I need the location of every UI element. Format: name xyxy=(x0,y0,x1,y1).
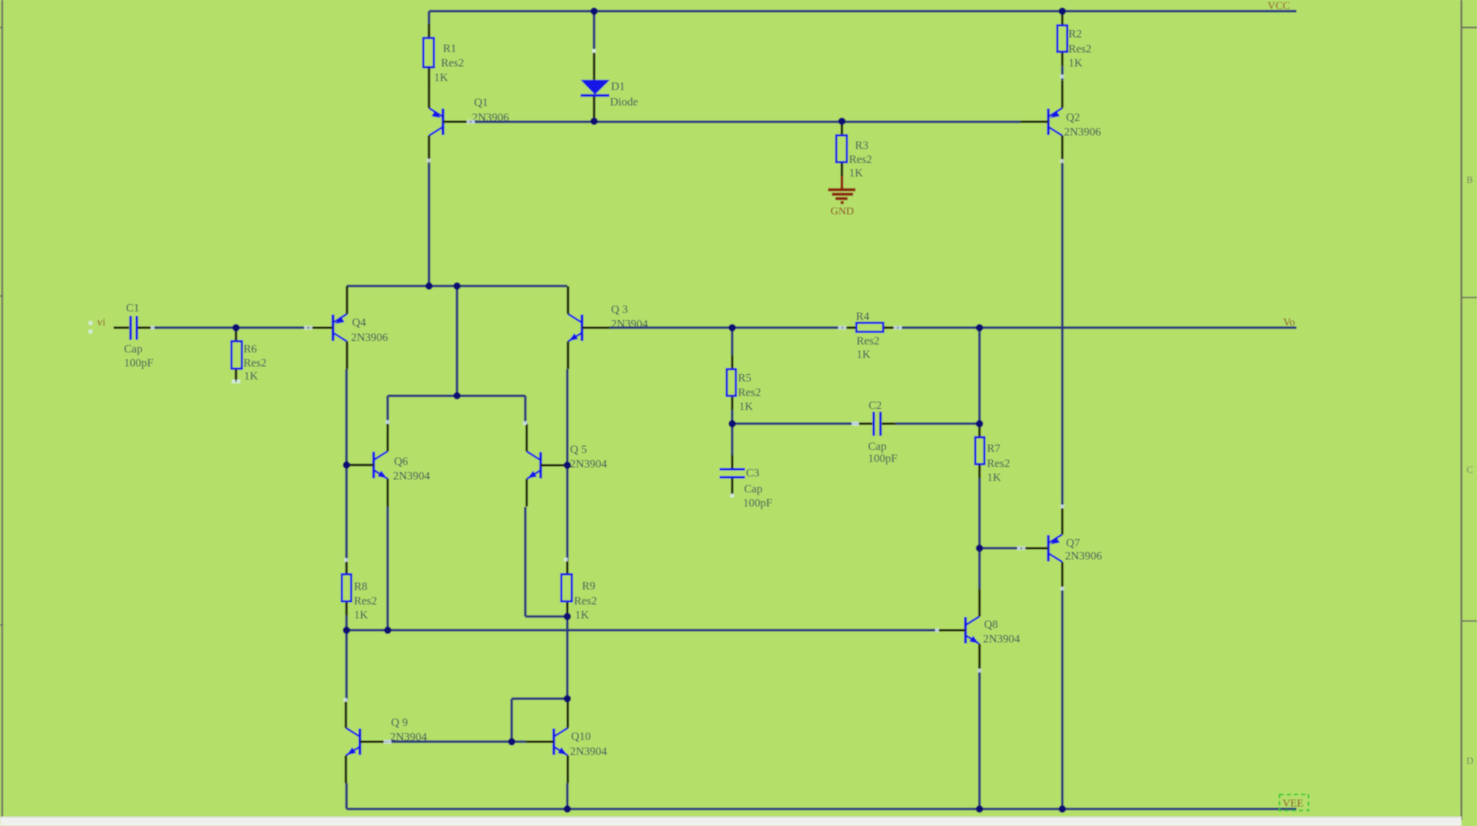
resistor R6 xyxy=(232,341,242,368)
resistor R4 xyxy=(856,323,883,332)
wire R2 to Q2 xyxy=(1061,66,1064,80)
label R8 xyxy=(354,581,377,622)
transistor Q7 xyxy=(1021,507,1063,590)
wire base bus y630 xyxy=(347,629,938,632)
svg-text:Q7: Q7 xyxy=(1066,538,1080,550)
junction Q5E-R9 xyxy=(564,613,571,620)
wire Q8 emitter down xyxy=(978,672,981,809)
svg-text:Q 3: Q 3 xyxy=(611,304,628,316)
svg-text:R9: R9 xyxy=(582,581,596,593)
svg-text:1K: 1K xyxy=(739,401,754,413)
wire C3 top xyxy=(731,424,734,455)
pin R7 top xyxy=(978,424,981,438)
wire R7 bottom down xyxy=(978,478,981,548)
svg-text:R6: R6 xyxy=(244,344,258,356)
label Q2 xyxy=(1064,112,1101,139)
svg-text:Q 9: Q 9 xyxy=(391,717,408,729)
junction R3-base line xyxy=(838,118,845,125)
transistor Q8 xyxy=(938,589,980,672)
wire Q5 collector up xyxy=(524,396,527,424)
svg-text:Res2: Res2 xyxy=(987,458,1010,470)
diode D1 xyxy=(581,80,610,96)
label Q6 xyxy=(393,456,430,483)
wire Q10 emitter down xyxy=(566,783,569,809)
svg-text:R1: R1 xyxy=(443,43,457,55)
pin R9 top xyxy=(566,560,569,574)
transistor Q5 xyxy=(527,424,569,507)
net label vi xyxy=(97,317,106,329)
wire Q4 collector down xyxy=(345,369,348,560)
pin C3 bottom xyxy=(731,479,734,495)
wire R9 bottom down xyxy=(566,617,569,699)
svg-text:Q8: Q8 xyxy=(984,619,998,631)
svg-text:VCC: VCC xyxy=(1268,0,1291,12)
svg-text:Res2: Res2 xyxy=(244,358,267,370)
pin C2 left xyxy=(859,422,872,425)
wire base line Q1-Q2 xyxy=(471,121,1021,124)
svg-text:1K: 1K xyxy=(849,168,864,180)
svg-text:R4: R4 xyxy=(856,311,870,323)
wire D1 top xyxy=(593,11,596,49)
resistor R8 xyxy=(342,574,351,601)
junction Q1 collector rail xyxy=(425,282,432,289)
junction R5-C2-C3 xyxy=(729,420,736,427)
pin C2 right xyxy=(882,422,895,425)
svg-text:vi: vi xyxy=(97,317,106,329)
svg-text:2N3906: 2N3906 xyxy=(1064,127,1101,139)
pin R7 bottom xyxy=(978,464,981,478)
svg-text:1K: 1K xyxy=(244,371,259,383)
svg-text:R5: R5 xyxy=(738,373,752,385)
power port VEE (selected) xyxy=(1280,795,1309,811)
svg-text:Res2: Res2 xyxy=(849,154,872,166)
wire Q9 base xyxy=(388,740,512,743)
wire C1 to Q4 xyxy=(153,326,305,329)
svg-text:1K: 1K xyxy=(857,349,872,361)
resistor R2 xyxy=(1057,25,1067,51)
resistor R3 xyxy=(836,135,847,162)
wire C2 right xyxy=(895,422,979,425)
pin D1 top xyxy=(593,52,596,80)
svg-text:R2: R2 xyxy=(1069,29,1083,41)
svg-text:1K: 1K xyxy=(987,472,1002,484)
net label Vo xyxy=(1283,317,1296,329)
transistor Q9 xyxy=(346,700,388,783)
junction Q5 base xyxy=(564,462,571,469)
wire VEE rail xyxy=(347,808,1297,811)
svg-text:2N3904: 2N3904 xyxy=(393,471,430,483)
svg-text:C3: C3 xyxy=(746,468,760,480)
pin R3 bottom xyxy=(841,162,844,176)
pin R5 top xyxy=(731,355,734,369)
svg-text:Cap: Cap xyxy=(744,484,763,496)
wire Q10 base xyxy=(512,740,527,743)
junction x457-y396 xyxy=(453,392,460,399)
selection grips xyxy=(89,49,1065,744)
wire Q9 collector up xyxy=(345,630,348,700)
pin R4 left xyxy=(842,326,856,329)
wire Q7 base xyxy=(980,547,1021,550)
wire R5 bottom xyxy=(731,410,734,424)
svg-text:Res2: Res2 xyxy=(574,596,597,608)
svg-text:Res2: Res2 xyxy=(354,596,377,608)
wire R5 top xyxy=(731,328,734,355)
wire Q9 emitter down xyxy=(345,783,348,809)
wire x457 down xyxy=(456,286,459,396)
label R2 xyxy=(1069,29,1092,70)
svg-text:Vo: Vo xyxy=(1283,317,1296,329)
junction VEE-Q8 xyxy=(976,805,983,812)
wire Q2 collector down xyxy=(1061,163,1064,506)
svg-text:Res2: Res2 xyxy=(441,58,464,70)
svg-text:Res2: Res2 xyxy=(1069,44,1092,56)
svg-text:R3: R3 xyxy=(855,140,869,152)
label R4 xyxy=(856,311,880,361)
junction VEE-Q7 xyxy=(1059,805,1066,812)
transistor Q10 xyxy=(526,700,568,783)
wire Q9Q10 base loop vertical xyxy=(510,699,513,742)
junction x457 rail xyxy=(453,282,460,289)
junction R7-Q7-Q8 xyxy=(976,545,983,552)
svg-text:D: D xyxy=(1467,757,1474,767)
svg-text:100pF: 100pF xyxy=(868,453,897,465)
pin R1 top xyxy=(428,24,431,38)
svg-text:R7: R7 xyxy=(987,443,1001,455)
svg-text:Q1: Q1 xyxy=(474,97,488,109)
label D1 xyxy=(610,81,638,109)
label Q3 xyxy=(611,304,648,331)
wire R5 to C2 xyxy=(732,422,859,425)
svg-text:2N3906: 2N3906 xyxy=(472,112,509,124)
wire VCC rail xyxy=(429,10,1297,13)
svg-text:2N3904: 2N3904 xyxy=(983,634,1020,646)
svg-text:100pF: 100pF xyxy=(743,498,772,510)
label Q9 xyxy=(390,717,427,744)
wire Q7 collector down xyxy=(1061,590,1064,809)
svg-text:D1: D1 xyxy=(611,81,625,93)
junction VEE-Q10 xyxy=(564,805,571,812)
pin R2 bottom xyxy=(1061,52,1064,66)
svg-text:2N3904: 2N3904 xyxy=(611,319,648,331)
svg-text:2N3906: 2N3906 xyxy=(1065,551,1102,563)
junction Q4C-Q6 base xyxy=(343,461,350,468)
pin R6 bottom xyxy=(235,368,238,382)
svg-text:C1: C1 xyxy=(126,303,140,315)
wire R8 bottom xyxy=(345,615,348,630)
svg-text:Q10: Q10 xyxy=(571,731,591,743)
svg-text:Res2: Res2 xyxy=(738,387,761,399)
svg-text:Diode: Diode xyxy=(610,97,638,109)
svg-text:2N3906: 2N3906 xyxy=(351,332,388,344)
junction D1-base line xyxy=(590,118,597,125)
transistor Q4 xyxy=(305,286,347,369)
svg-text:1K: 1K xyxy=(434,72,449,84)
svg-text:Cap: Cap xyxy=(868,441,887,453)
junction R4-vert xyxy=(976,324,983,331)
svg-text:Q6: Q6 xyxy=(394,456,408,468)
label R6 xyxy=(244,344,267,383)
svg-text:2N3904: 2N3904 xyxy=(570,459,607,471)
transistor Q2 xyxy=(1021,80,1063,163)
pin C3 top xyxy=(731,455,734,468)
junction D1-VCC xyxy=(590,8,597,15)
label R5 xyxy=(738,373,761,414)
transistor Q1 xyxy=(429,80,471,163)
label R1 xyxy=(434,43,464,84)
label C3 xyxy=(743,468,772,510)
wire Q6-Q5 top bus xyxy=(388,394,526,397)
resistor R5 xyxy=(727,369,736,396)
junction C1-R6 xyxy=(232,324,239,331)
svg-text:C2: C2 xyxy=(869,400,883,412)
svg-text:C: C xyxy=(1467,466,1473,476)
resistor R9 xyxy=(561,574,571,601)
svg-text:R8: R8 xyxy=(354,581,368,593)
capacitor C1 xyxy=(131,316,137,340)
junction Q6E-bus xyxy=(384,627,391,634)
junction C2-vert xyxy=(976,420,983,427)
label C2 xyxy=(868,400,897,465)
pin C1 right xyxy=(138,326,153,329)
pin D1 bottom xyxy=(593,96,596,121)
svg-text:Q 5: Q 5 xyxy=(570,444,587,456)
transistor Q6 xyxy=(346,424,388,507)
svg-text:100pF: 100pF xyxy=(124,358,153,370)
svg-text:2N3904: 2N3904 xyxy=(390,732,427,744)
pin R4 right xyxy=(883,326,897,329)
svg-text:VEE: VEE xyxy=(1283,798,1304,810)
wire Q6 emitter down xyxy=(386,506,389,630)
junction R2-VCC xyxy=(1059,8,1066,15)
resistor R7 xyxy=(975,437,984,464)
svg-text:Q2: Q2 xyxy=(1066,112,1080,124)
wire collector rail xyxy=(347,285,568,288)
wire Q9Q10 base loop horizontal xyxy=(512,697,568,700)
pin R8 top xyxy=(345,560,348,574)
pin R1 bottom xyxy=(428,67,431,81)
pin R5 bottom xyxy=(731,396,734,410)
label Q5 xyxy=(570,444,607,471)
wire Q6 collector up xyxy=(386,396,389,424)
junction Q3 base-R5 xyxy=(729,324,736,331)
svg-text:1K: 1K xyxy=(354,610,369,622)
wire R1 top xyxy=(428,11,431,24)
svg-text:B: B xyxy=(1467,176,1473,186)
svg-text:1K: 1K xyxy=(575,610,590,622)
label Q1 xyxy=(472,97,509,124)
wire R4 down xyxy=(978,328,981,424)
label R7 xyxy=(987,443,1010,484)
wire Q5 emitter to R9 xyxy=(525,615,567,618)
label Q4 xyxy=(351,317,388,344)
label Q10 xyxy=(570,731,607,758)
pin C1 left xyxy=(114,326,129,329)
svg-text:2N3904: 2N3904 xyxy=(570,746,607,758)
transistor Q3 xyxy=(568,286,610,369)
wire Q1 collector down xyxy=(428,163,431,286)
power port VCC xyxy=(1268,0,1291,12)
svg-text:Cap: Cap xyxy=(124,344,143,356)
pin R6 top xyxy=(235,328,238,342)
label R3 xyxy=(849,140,872,180)
svg-text:Res2: Res2 xyxy=(857,336,880,348)
svg-text:GND: GND xyxy=(831,206,855,218)
capacitor C2 xyxy=(874,412,881,436)
label C1 xyxy=(124,303,153,370)
ground xyxy=(828,176,856,203)
svg-text:1K: 1K xyxy=(1069,58,1084,70)
junction R8-bus xyxy=(343,627,350,634)
label Q8 xyxy=(983,619,1020,646)
wire R4 to Vo xyxy=(897,326,1296,329)
resistor R1 xyxy=(423,38,434,67)
wire Q5 emitter down xyxy=(524,507,527,617)
wire Q3 base to R4 xyxy=(610,326,843,329)
pin R9 bottom xyxy=(566,601,569,616)
wire Q3 emitter down xyxy=(566,369,569,560)
pin R3 top xyxy=(841,122,844,136)
pin R2 top xyxy=(1061,11,1064,25)
svg-text:Q4: Q4 xyxy=(352,317,366,329)
label R9 xyxy=(574,581,597,622)
capacitor C3 xyxy=(720,469,746,477)
label Q7 xyxy=(1065,538,1102,563)
pin R8 bottom xyxy=(345,601,348,615)
junction Q9Q10 base xyxy=(508,738,515,745)
label GND xyxy=(831,206,855,218)
wire Q8 collector up xyxy=(978,548,981,589)
junction Q10C loop xyxy=(564,695,571,702)
